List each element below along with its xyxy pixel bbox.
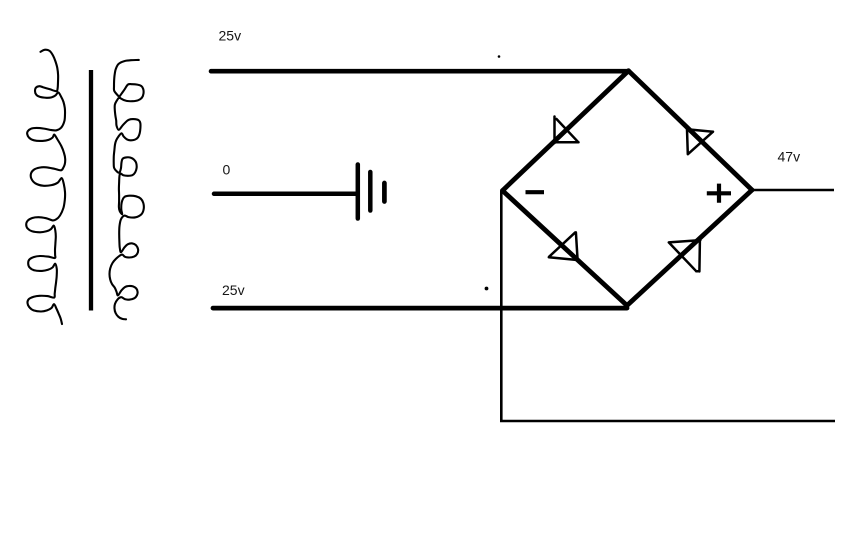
svg-text:25v: 25v [219, 28, 242, 44]
bridge arm top-left [503, 71, 629, 191]
diode D1 top-left [554, 117, 579, 144]
phase dot bottom [485, 287, 489, 291]
diode D4 bottom-right [669, 240, 701, 271]
bridge arm bottom-right [627, 190, 752, 306]
ground bar 3 [382, 183, 387, 202]
ground bar 1 [356, 165, 361, 219]
wire output plus [752, 189, 834, 192]
transformer T1 primary winding [26, 50, 65, 324]
wire bottom 25v to bridge [213, 306, 627, 311]
diode D3 bottom-left [549, 232, 578, 260]
wire output minus vertical [500, 191, 503, 421]
bridge arm top-right [629, 71, 753, 190]
svg-text:25v: 25v [222, 282, 245, 298]
wire top 25v to bridge [211, 69, 629, 74]
svg-text:47v: 47v [778, 149, 801, 165]
bridge arm bottom-left [503, 191, 628, 306]
svg-text:0: 0 [223, 162, 231, 178]
phase dot top [498, 55, 501, 58]
wire output minus horizontal [500, 420, 835, 423]
diode D2 top-right [687, 129, 713, 154]
transformer T1 core [89, 70, 93, 311]
ground bar 2 [368, 172, 373, 211]
minus label [526, 190, 545, 194]
transformer T1 secondary winding [110, 60, 144, 319]
wire center tap to ground [214, 192, 357, 197]
plus label [707, 184, 731, 203]
